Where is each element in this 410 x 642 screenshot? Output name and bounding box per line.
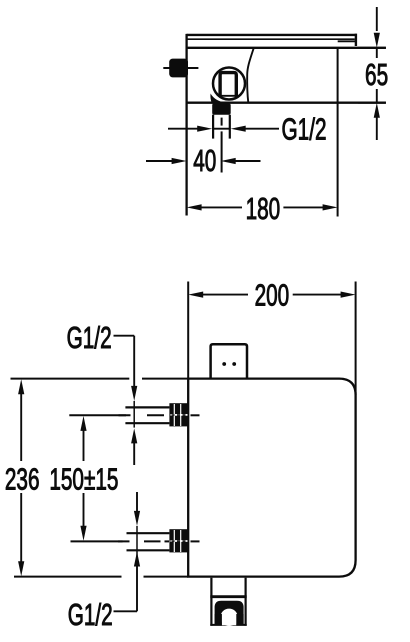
svg-text:G1/2: G1/2 [67, 320, 112, 355]
svg-text:236: 236 [5, 461, 40, 496]
svg-text:180: 180 [246, 191, 281, 226]
svg-text:G1/2: G1/2 [282, 111, 327, 146]
svg-text:200: 200 [255, 277, 290, 312]
svg-text:G1/2: G1/2 [68, 597, 113, 632]
svg-text:150±15: 150±15 [49, 461, 118, 496]
svg-text:65: 65 [365, 57, 388, 92]
svg-text:40: 40 [193, 143, 216, 178]
